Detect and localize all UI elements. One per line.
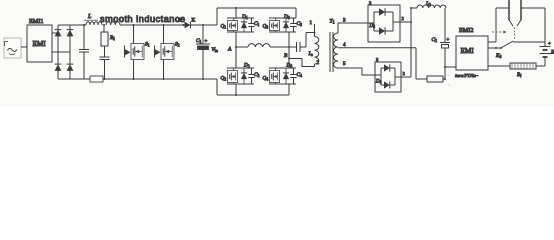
right electrode — [517, 0, 521, 26]
output inductor L2 — [417, 5, 446, 8]
Q2 stub to bottom rail — [235, 84, 237, 95]
transformer primary winding — [315, 37, 319, 65]
label A node — [227, 47, 232, 53]
EMI2 out wire to switch — [488, 47, 501, 49]
wire electrode to switch contact — [544, 8, 546, 42]
label 1 — [310, 21, 313, 26]
resistor Rf — [510, 63, 536, 69]
label L smooth inductor — [84, 14, 98, 20]
bridge diode bottom-right — [67, 64, 74, 71]
transistor Q1 with body diode D1 and capacitor C1 — [227, 18, 255, 32]
label D6 — [375, 80, 382, 85]
EMI2 out top wire — [488, 41, 496, 43]
svg-text:+: + — [548, 42, 551, 47]
S2 leg wire lower — [163, 60, 165, 80]
secondary bottom lead 5 — [338, 68, 375, 75]
snubber capacitor — [100, 46, 110, 79]
wire cap to transformer primary — [306, 33, 315, 48]
EMI filter box EMI2 — [456, 36, 488, 70]
transformer core — [330, 32, 333, 72]
Q1 stub to rail — [235, 8, 237, 18]
watermark text — [447, 73, 479, 86]
EMI filter box EMI1 — [27, 25, 52, 62]
node Q2 leg bottom — [235, 94, 237, 96]
rectifier module D6 bottom — [375, 62, 401, 92]
bridge diode top-right — [67, 30, 74, 37]
bridge leg 1 wire — [57, 25, 59, 79]
svg-text:D6: D6 — [375, 80, 382, 85]
label Vin — [212, 47, 218, 53]
smooth inductor coil 1 — [86, 22, 102, 25]
svg-text:+: + — [205, 40, 208, 45]
resistor R1 — [101, 25, 108, 46]
wire A to resonant inductor — [236, 46, 248, 48]
label Q3 — [263, 24, 269, 30]
label EMI2 — [459, 27, 473, 34]
wire source to EMI1 — [21, 46, 27, 48]
label C3 snubber — [297, 21, 302, 27]
H-bridge rail right corner — [295, 8, 297, 18]
svg-text:EMI: EMI — [33, 40, 47, 48]
terminal 1 stub — [314, 24, 316, 37]
label 2 pin block1 — [402, 16, 405, 21]
label C2 snubber — [254, 72, 259, 78]
H-bridge top rail — [217, 7, 296, 9]
transistor Q4 with body diode D4 and capacitor C4 — [269, 68, 297, 84]
output capacitor C2 — [440, 43, 450, 80]
label smooth inductance — [100, 14, 186, 24]
node B — [288, 58, 290, 60]
svg-text:Ls: Ls — [308, 52, 314, 57]
svg-text:L: L — [87, 14, 92, 20]
label 5 — [343, 62, 346, 67]
label 3 pin block2 — [376, 57, 379, 62]
node primary top lead — [314, 32, 316, 34]
label D3 — [283, 14, 290, 20]
svg-text:smooth inductance: smooth inductance — [100, 14, 186, 24]
transformer secondary winding — [334, 33, 339, 68]
H-bridge bottom rail — [217, 94, 289, 96]
label L2 — [425, 1, 431, 7]
label E — [550, 51, 554, 56]
H-bridge bottom left corner — [216, 79, 218, 95]
node S2 top — [163, 24, 165, 26]
switch K6 blade — [501, 41, 513, 48]
label B node — [284, 53, 288, 59]
node bulk cap bottom — [202, 78, 204, 80]
wire L2 to C2 — [444, 8, 446, 43]
left leg wire through A — [235, 32, 237, 68]
secondary top lead to terminal 3 — [338, 23, 368, 33]
wire EMI1 out bottom — [52, 51, 70, 53]
right electrode stub — [521, 7, 545, 9]
wire inductor to resonant cap — [270, 46, 297, 48]
label battery plus — [548, 42, 551, 47]
label 3 pin block1 — [369, 1, 372, 6]
label 2 pin block2 — [403, 71, 406, 76]
label Rf — [516, 73, 522, 78]
wire EMI1 out top — [52, 32, 58, 34]
S2 leg wire upper — [163, 25, 165, 44]
label D1 — [241, 14, 248, 20]
svg-text:K: K — [192, 18, 196, 24]
resonant capacitor — [297, 42, 307, 52]
filter capacitor after bridge — [79, 25, 89, 79]
output wire to L2 — [411, 7, 417, 9]
boost diode — [185, 22, 204, 28]
wire up to H-bridge rail — [216, 8, 218, 25]
rectifier module D5 top — [368, 5, 400, 42]
dashed arrow — [492, 31, 507, 34]
battery E — [540, 42, 551, 66]
svg-text:A: A — [178, 18, 182, 24]
node S1 bottom — [133, 78, 135, 80]
label C1+ — [196, 38, 208, 45]
S1 leg wire lower — [133, 60, 135, 80]
shunt resistor on output — [427, 76, 443, 82]
series resistor on bottom rail — [90, 76, 103, 82]
transistor S2 — [155, 44, 175, 60]
label A anode — [178, 18, 182, 24]
label K6 — [495, 53, 501, 59]
label D2 — [243, 63, 250, 69]
svg-text:EMI1: EMI1 — [29, 18, 43, 25]
node between inductors — [103, 24, 105, 26]
output bottom wire 2 — [443, 78, 445, 80]
stub to EMI2 box — [445, 66, 456, 68]
label C4 snubber — [297, 72, 302, 78]
output bottom wire — [416, 78, 427, 80]
label T1 — [330, 19, 335, 25]
svg-text:Rf: Rf — [516, 73, 522, 78]
primary bottom lead — [289, 59, 315, 67]
transistor S1 — [125, 44, 145, 60]
resonant inductor — [248, 44, 270, 47]
bridge diode bottom-left — [55, 64, 62, 71]
block1 output wire — [400, 21, 411, 23]
bulk capacitor C1 — [196, 25, 210, 79]
label D4 — [286, 63, 293, 69]
svg-text:+: + — [447, 38, 450, 43]
label C2+ — [432, 37, 450, 43]
transistor Q3 with body diode D3 and capacitor C3 — [269, 18, 297, 32]
bridge leg 2 wire — [69, 25, 71, 79]
node C2 bottom — [444, 78, 446, 80]
dashed actuation line — [514, 28, 516, 41]
label 4 — [343, 43, 346, 48]
node output bus top — [410, 7, 412, 9]
node stub — [444, 66, 446, 68]
top wire after inductors — [120, 24, 185, 26]
svg-text:ȧww.PY/dz−: ȧww.PY/dz− — [455, 73, 479, 78]
label S2 — [175, 42, 180, 48]
label Q2 — [221, 76, 227, 82]
node R-C branch bottom — [104, 78, 106, 80]
label 3 — [343, 19, 346, 24]
center tap lead 4 — [338, 47, 416, 49]
node bulk cap top — [202, 24, 204, 26]
bridge diode top-left — [55, 30, 62, 37]
label K cathode — [192, 18, 196, 24]
svg-text:T1: T1 — [330, 19, 335, 25]
svg-text:A: A — [227, 47, 232, 53]
wire Rf to EMI2 — [488, 65, 510, 67]
wire up to left electrode — [496, 8, 509, 42]
smooth inductor coil 2 — [106, 22, 120, 25]
top rail wire — [58, 24, 86, 26]
label R1 — [109, 35, 115, 41]
bottom rail wire — [58, 78, 217, 80]
node anode — [183, 24, 185, 26]
label Q4 — [263, 76, 269, 82]
node S2 bottom — [163, 78, 165, 80]
svg-text:EMI: EMI — [461, 47, 475, 55]
svg-text:EMI2: EMI2 — [459, 27, 473, 34]
left electrode — [509, 0, 513, 26]
right leg wire — [288, 32, 290, 68]
node Q1 rail — [235, 7, 237, 9]
node A — [235, 46, 237, 48]
wire battery to Rf — [536, 65, 545, 67]
node crossing midline — [288, 46, 290, 48]
label S1 — [145, 42, 150, 48]
label EMI1 — [29, 18, 43, 25]
AC mains source — [4, 38, 21, 58]
label C1 snubber — [254, 21, 259, 27]
label 2 — [317, 61, 320, 66]
label Ls leakage — [308, 52, 314, 57]
transistor Q2 with body diode D2 and capacitor C2 — [227, 68, 255, 84]
node S1 top — [133, 24, 135, 26]
node switch junction — [495, 47, 502, 49]
label Q1 — [221, 24, 227, 30]
label D5 — [369, 24, 376, 29]
node rectifier out — [410, 21, 412, 23]
top wire to bulk cap — [203, 24, 217, 26]
svg-text:E: E — [550, 51, 554, 56]
switch contact wire — [513, 41, 545, 43]
rectifier output bus wire — [410, 8, 412, 77]
node filter cap top — [83, 24, 85, 26]
S1 leg wire upper — [133, 25, 135, 44]
center tap return wire — [415, 48, 417, 79]
svg-text:D5: D5 — [369, 24, 376, 29]
H-bridge bottom right corner — [288, 84, 290, 95]
block2 output wire — [401, 76, 411, 78]
